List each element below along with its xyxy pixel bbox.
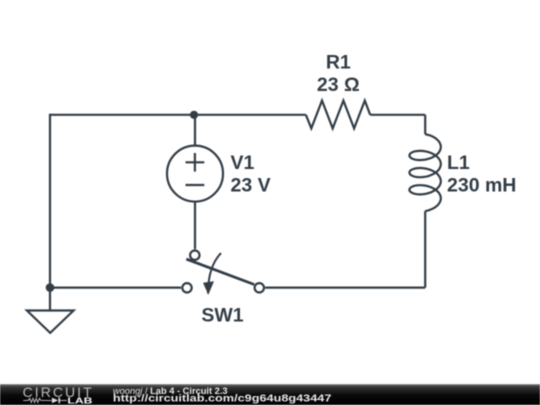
wire V1 top stem	[194, 115, 196, 146]
svg-text:http://circuitlab.com/c9g64u8g: http://circuitlab.com/c9g64u8g43447	[113, 394, 332, 405]
voltage source V1 circle	[167, 146, 223, 202]
logo diode triangle	[52, 398, 58, 404]
V1 minus sign	[186, 184, 205, 186]
wire top-right horizontal	[370, 114, 425, 116]
logo wire to LAB	[60, 400, 67, 402]
switch SW1 top terminal	[190, 251, 199, 260]
inductor L1	[409, 134, 440, 211]
wire bottom-left	[50, 287, 181, 289]
switch SW1 left terminal	[182, 283, 191, 292]
svg-text:23 V: 23 V	[231, 175, 271, 197]
switch SW1 blade	[186, 259, 254, 284]
switch arrow arc	[208, 253, 221, 293]
svg-text:SW1: SW1	[201, 305, 243, 327]
svg-text:23 Ω: 23 Ω	[317, 74, 360, 96]
junction dot bottom-left	[46, 283, 55, 292]
resistor R1	[306, 101, 370, 129]
ground stem	[49, 288, 51, 311]
svg-text:LAB: LAB	[67, 396, 93, 405]
wire top-left horizontal	[50, 114, 306, 116]
junction dot top	[190, 111, 198, 119]
switch arrow head	[203, 281, 214, 295]
svg-text:R1: R1	[326, 52, 351, 74]
wire V1 bottom stem	[194, 202, 196, 250]
ground triangle	[27, 311, 74, 333]
logo diode bar	[58, 398, 60, 404]
wire right vertical above inductor	[424, 115, 426, 134]
wire bottom-right	[265, 287, 425, 289]
V1 plus sign	[186, 153, 205, 172]
svg-text:230 mH: 230 mH	[447, 175, 516, 197]
wire left vertical	[49, 114, 51, 288]
wire right vertical below inductor	[424, 211, 426, 288]
logo zigzag resistor	[23, 398, 51, 402]
svg-text:V1: V1	[231, 152, 255, 174]
svg-text:L1: L1	[447, 152, 470, 174]
switch SW1 right terminal	[255, 283, 264, 292]
